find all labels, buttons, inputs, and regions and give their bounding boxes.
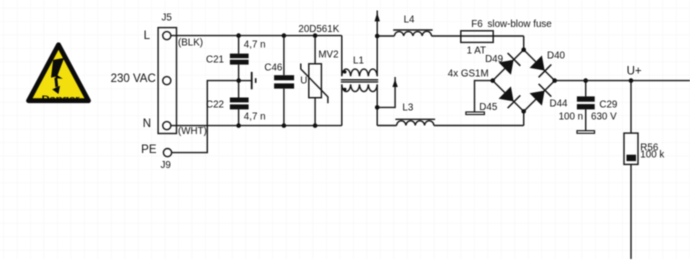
svg-text:U+: U+ bbox=[627, 66, 642, 78]
svg-text:D45: D45 bbox=[479, 102, 498, 113]
svg-text:D44: D44 bbox=[550, 98, 569, 109]
svg-text:MV2: MV2 bbox=[318, 49, 338, 60]
svg-text:20D561K: 20D561K bbox=[298, 24, 339, 35]
svg-text:J9: J9 bbox=[161, 160, 171, 171]
svg-text:100 n: 100 n bbox=[559, 111, 584, 122]
svg-text:D49: D49 bbox=[485, 54, 503, 65]
svg-text:C22: C22 bbox=[206, 99, 224, 110]
svg-text:U: U bbox=[300, 76, 307, 87]
svg-text:L: L bbox=[144, 30, 151, 42]
svg-text:slow-blow fuse: slow-blow fuse bbox=[488, 19, 553, 30]
svg-text:L4: L4 bbox=[404, 15, 415, 26]
svg-text:1 AT: 1 AT bbox=[467, 46, 486, 57]
svg-text:C29: C29 bbox=[599, 99, 617, 110]
svg-text:D40: D40 bbox=[547, 51, 566, 62]
svg-text:4x GS1M: 4x GS1M bbox=[448, 68, 489, 79]
svg-text:C21: C21 bbox=[206, 54, 224, 65]
svg-text:100 k: 100 k bbox=[640, 150, 664, 161]
svg-text:L3: L3 bbox=[402, 103, 413, 114]
svg-text:PE: PE bbox=[141, 144, 157, 156]
svg-text:Danger: Danger bbox=[42, 93, 81, 103]
svg-text:4,7 n: 4,7 n bbox=[244, 112, 266, 123]
svg-text:N: N bbox=[143, 118, 151, 130]
svg-text:230 VAC: 230 VAC bbox=[111, 73, 156, 85]
svg-text:C46: C46 bbox=[264, 63, 283, 74]
svg-text:(BLK): (BLK) bbox=[178, 37, 203, 48]
svg-text:(WHT): (WHT) bbox=[178, 126, 207, 137]
svg-text:630 V: 630 V bbox=[591, 111, 617, 122]
svg-text:L1: L1 bbox=[353, 55, 364, 66]
svg-text:J5: J5 bbox=[162, 12, 173, 23]
svg-text:F6: F6 bbox=[471, 19, 483, 30]
svg-text:4,7 n: 4,7 n bbox=[244, 40, 266, 51]
